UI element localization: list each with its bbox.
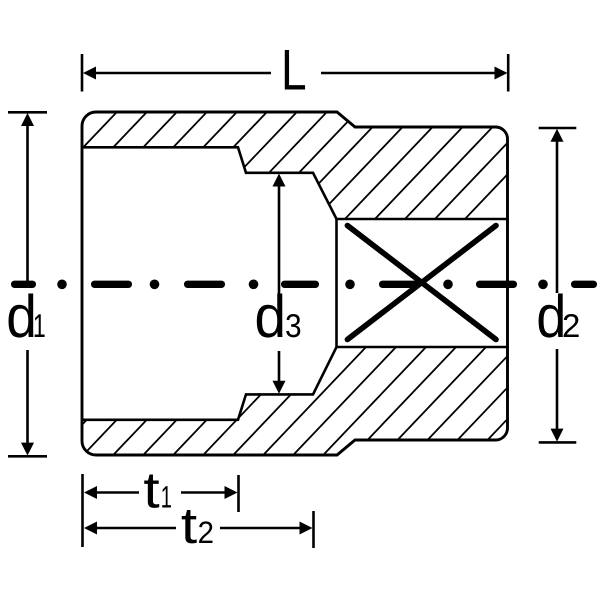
hatching lower wall section (0, 335, 600, 465)
center line (11, 280, 597, 290)
dimension t2 label (182, 510, 197, 543)
square drive X mark (347, 226, 496, 340)
dimension d2 arrowheads (551, 129, 564, 142)
inner bore profile upper (82, 147, 508, 219)
dimension d2 extension ticks (539, 128, 577, 442)
dimension d3 label (257, 294, 283, 338)
dimension L extension ticks (82, 54, 508, 92)
dimension t1 arrowheads (84, 486, 97, 499)
dimension d3 line (278, 186, 281, 381)
inner bore profile lower (82, 347, 508, 420)
dimension d2 label (539, 294, 563, 338)
dimension t1 extension ticks (83, 474, 239, 547)
hatching upper wall section (0, 100, 578, 235)
dimension L line (94, 72, 496, 75)
dimension t2 extension tick (312, 511, 315, 548)
dimension d2 line (556, 141, 559, 430)
dimension d1 line (26, 125, 29, 444)
dimension t1 label (144, 475, 159, 508)
dimension L arrowheads (83, 67, 96, 80)
socket body outer profile (82, 112, 508, 455)
dimension L label (285, 50, 305, 90)
dimension d1 arrowheads (21, 113, 34, 126)
dimension t2 line (96, 527, 301, 530)
dimension d1 label (9, 294, 34, 338)
dimension d1 extension ticks (8, 112, 47, 456)
dimension t2 arrowheads (84, 522, 97, 535)
square drive hole left edge (335, 219, 338, 347)
dimension d3 arrowheads (273, 174, 286, 187)
dimension t1 line (96, 491, 226, 494)
